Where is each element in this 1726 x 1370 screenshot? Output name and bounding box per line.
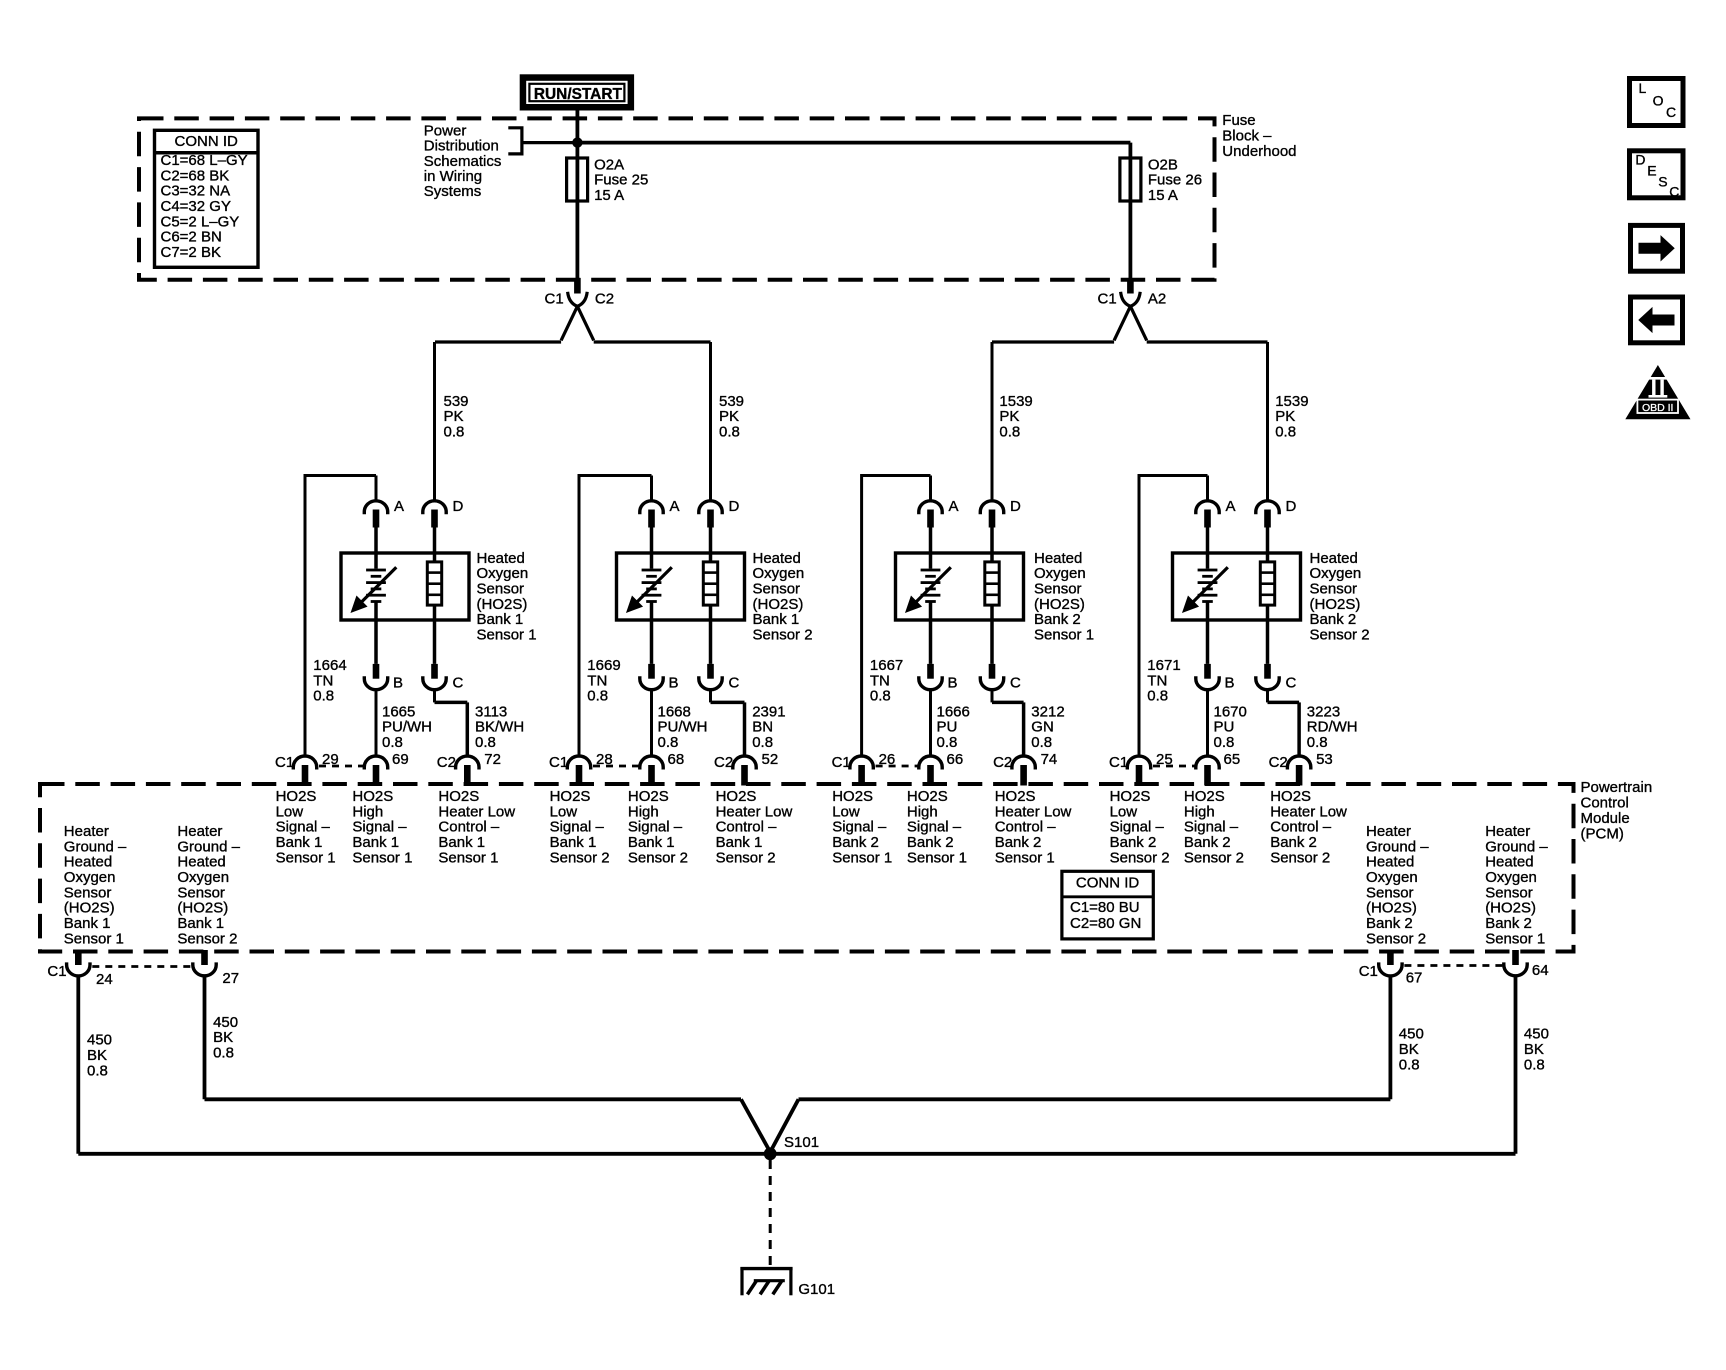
svg-text:Underhood: Underhood <box>1222 143 1296 160</box>
svg-text:C: C <box>1010 675 1021 692</box>
svg-text:0.8: 0.8 <box>658 734 679 751</box>
svg-text:Sensor 1: Sensor 1 <box>907 849 967 866</box>
svg-text:C1: C1 <box>545 290 564 307</box>
svg-text:Sensor 2: Sensor 2 <box>1110 849 1170 866</box>
svg-text:S101: S101 <box>784 1134 819 1151</box>
svg-text:C7=2 BK: C7=2 BK <box>161 244 221 261</box>
svg-text:C1: C1 <box>549 754 568 771</box>
svg-text:69: 69 <box>392 751 409 768</box>
svg-text:0.8: 0.8 <box>752 734 773 751</box>
svg-text:Sensor 2: Sensor 2 <box>1310 627 1370 644</box>
svg-text:C1: C1 <box>1098 290 1117 307</box>
svg-text:Sensor 2: Sensor 2 <box>1270 849 1330 866</box>
svg-text:Sensor 1: Sensor 1 <box>832 849 892 866</box>
svg-text:72: 72 <box>484 751 501 768</box>
svg-text:0.8: 0.8 <box>1399 1056 1420 1073</box>
svg-text:0.8: 0.8 <box>870 688 891 705</box>
svg-text:74: 74 <box>1041 751 1058 768</box>
svg-text:53: 53 <box>1316 751 1333 768</box>
svg-text:C1: C1 <box>832 754 851 771</box>
svg-text:OBD II: OBD II <box>1642 402 1674 414</box>
svg-text:Sensor 2: Sensor 2 <box>1184 849 1244 866</box>
svg-text:A: A <box>949 498 959 515</box>
svg-text:0.8: 0.8 <box>87 1062 108 1079</box>
svg-text:C: C <box>1286 675 1297 692</box>
svg-text:C1: C1 <box>1359 963 1378 980</box>
svg-text:C2: C2 <box>595 290 614 307</box>
svg-text:Sensor 2: Sensor 2 <box>628 849 688 866</box>
svg-text:0.8: 0.8 <box>937 734 958 751</box>
svg-text:0.8: 0.8 <box>1307 734 1328 751</box>
svg-text:0.8: 0.8 <box>1275 423 1296 440</box>
svg-text:O: O <box>1653 92 1664 108</box>
svg-text:B: B <box>393 675 403 692</box>
svg-text:Sensor 2: Sensor 2 <box>753 627 813 644</box>
svg-text:0.8: 0.8 <box>1214 734 1235 751</box>
svg-text:(PCM): (PCM) <box>1581 825 1624 842</box>
svg-text:D: D <box>1286 498 1297 515</box>
svg-text:0.8: 0.8 <box>213 1045 234 1062</box>
svg-text:Sensor 1: Sensor 1 <box>1034 627 1094 644</box>
svg-text:0.8: 0.8 <box>1147 688 1168 705</box>
svg-text:CONN ID: CONN ID <box>175 133 239 150</box>
svg-text:65: 65 <box>1224 751 1241 768</box>
svg-text:66: 66 <box>947 751 964 768</box>
svg-text:RUN/START: RUN/START <box>534 86 622 103</box>
svg-text:0.8: 0.8 <box>444 423 465 440</box>
svg-text:Sensor 2: Sensor 2 <box>177 930 237 947</box>
svg-text:27: 27 <box>222 970 239 987</box>
svg-text:0.8: 0.8 <box>1031 734 1052 751</box>
svg-text:C2: C2 <box>714 754 733 771</box>
svg-text:C1: C1 <box>1109 754 1128 771</box>
svg-text:Sensor 1: Sensor 1 <box>1485 930 1545 947</box>
svg-text:Sensor 2: Sensor 2 <box>1366 930 1426 947</box>
svg-text:26: 26 <box>879 751 896 768</box>
svg-text:Sensor 2: Sensor 2 <box>550 849 610 866</box>
svg-text:C2: C2 <box>437 754 456 771</box>
svg-text:C: C <box>1669 184 1679 200</box>
svg-text:D: D <box>1010 498 1021 515</box>
svg-text:Sensor 1: Sensor 1 <box>438 849 498 866</box>
svg-text:C: C <box>729 675 740 692</box>
svg-text:L: L <box>1639 80 1647 96</box>
svg-text:C1=80 BU: C1=80 BU <box>1070 899 1140 916</box>
svg-text:G101: G101 <box>798 1281 835 1298</box>
svg-text:0.8: 0.8 <box>587 688 608 705</box>
svg-text:29: 29 <box>322 751 339 768</box>
svg-text:C2: C2 <box>1269 754 1288 771</box>
svg-text:Sensor 1: Sensor 1 <box>64 930 124 947</box>
svg-text:S: S <box>1658 174 1667 190</box>
svg-text:CONN ID: CONN ID <box>1076 874 1140 891</box>
svg-text:67: 67 <box>1406 970 1423 987</box>
svg-text:Sensor 1: Sensor 1 <box>477 627 537 644</box>
svg-text:Sensor 1: Sensor 1 <box>352 849 412 866</box>
svg-text:0.8: 0.8 <box>313 688 334 705</box>
svg-text:28: 28 <box>596 751 613 768</box>
svg-text:15 A: 15 A <box>594 187 624 204</box>
svg-text:E: E <box>1647 163 1656 179</box>
svg-text:C1: C1 <box>275 754 294 771</box>
svg-text:52: 52 <box>762 751 779 768</box>
svg-text:25: 25 <box>1156 751 1173 768</box>
svg-text:D: D <box>453 498 464 515</box>
svg-text:C2=80 GN: C2=80 GN <box>1070 915 1141 932</box>
svg-text:C1: C1 <box>47 963 66 980</box>
svg-text:0.8: 0.8 <box>382 734 403 751</box>
svg-text:15 A: 15 A <box>1148 187 1178 204</box>
svg-text:A: A <box>1226 498 1236 515</box>
svg-text:C2: C2 <box>993 754 1012 771</box>
svg-text:0.8: 0.8 <box>719 423 740 440</box>
svg-text:C: C <box>1666 104 1676 120</box>
svg-text:0.8: 0.8 <box>999 423 1020 440</box>
svg-text:0.8: 0.8 <box>475 734 496 751</box>
svg-text:C: C <box>453 675 464 692</box>
svg-text:Sensor 1: Sensor 1 <box>276 849 336 866</box>
svg-text:D: D <box>729 498 740 515</box>
svg-text:24: 24 <box>96 971 113 988</box>
svg-text:D: D <box>1635 151 1645 167</box>
svg-text:Systems: Systems <box>424 183 482 200</box>
svg-text:A: A <box>394 498 404 515</box>
svg-text:0.8: 0.8 <box>1524 1056 1545 1073</box>
svg-text:Sensor 1: Sensor 1 <box>995 849 1055 866</box>
svg-text:B: B <box>669 675 679 692</box>
svg-text:Sensor 2: Sensor 2 <box>716 849 776 866</box>
svg-text:A: A <box>670 498 680 515</box>
svg-text:64: 64 <box>1532 962 1549 979</box>
svg-text:B: B <box>1225 675 1235 692</box>
svg-text:A2: A2 <box>1148 290 1166 307</box>
svg-text:68: 68 <box>668 751 685 768</box>
svg-text:B: B <box>948 675 958 692</box>
